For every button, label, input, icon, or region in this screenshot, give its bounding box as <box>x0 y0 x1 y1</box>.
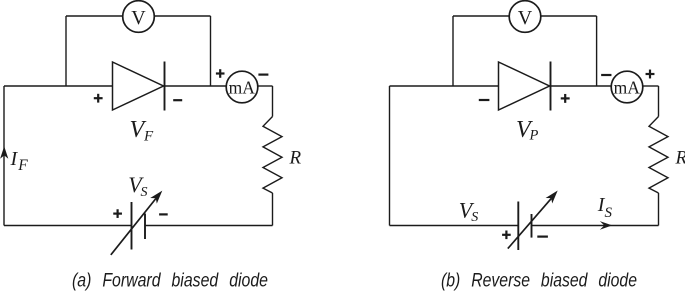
wire left vertical (b) <box>389 86 391 226</box>
svg-text:F: F <box>17 157 28 174</box>
svg-text:S: S <box>605 205 613 221</box>
svg-text:mA: mA <box>614 77 641 97</box>
battery V_S (a) short plate <box>144 214 146 240</box>
voltmeter V (a) <box>123 1 155 33</box>
wire ammeter to corner (b) <box>643 85 659 87</box>
label + battery (a) <box>113 209 122 218</box>
label V_F <box>130 117 155 145</box>
wire top horizontal (a) <box>4 85 113 87</box>
label - cathode (a) <box>173 99 182 101</box>
wire voltmeter left (a) <box>66 15 123 17</box>
ammeter mA (b) <box>611 71 643 103</box>
svg-text:mA: mA <box>229 77 256 97</box>
voltmeter V (b) <box>509 1 541 33</box>
wire diode to ammeter (a) <box>164 85 227 87</box>
wire ammeter to corner (a) <box>258 85 273 87</box>
svg-text:R: R <box>675 148 685 169</box>
label + anode (a) <box>94 94 103 103</box>
wire right vertical lower (b) <box>658 193 660 226</box>
ammeter mA (a) <box>226 71 258 103</box>
wire bottom right (b) <box>532 225 659 227</box>
battery V_S (a) variable arrow <box>111 191 163 255</box>
wire bottom right (a) <box>145 225 273 227</box>
svg-text:S: S <box>471 210 478 225</box>
wire voltmeter right (a) <box>154 15 210 17</box>
wire right vertical lower (a) <box>272 193 274 226</box>
label - anode (b) <box>479 99 490 101</box>
svg-text:S: S <box>141 185 148 200</box>
battery V_S (b) variable arrow <box>508 191 558 249</box>
diode D (b) cathode bar <box>550 62 552 111</box>
wire junction to voltmeter (a) <box>65 16 67 86</box>
wire top horizontal (b) <box>390 85 499 87</box>
wire bottom left (b) <box>390 225 519 227</box>
resistor R (b) <box>649 117 668 194</box>
diode D (b) triangle <box>499 62 550 110</box>
svg-text:V: V <box>518 7 533 29</box>
diode D (a) triangle <box>113 62 164 110</box>
label + battery (b) <box>502 231 511 240</box>
wire left vertical (a) <box>3 86 5 226</box>
wire right vertical upper (b) <box>658 86 660 117</box>
wire voltmeter down (b) <box>596 16 598 86</box>
battery V_S (b) short plate <box>531 214 533 238</box>
wire diode to ammeter (b) <box>550 85 612 87</box>
label - battery (a) <box>159 213 168 215</box>
label - battery (b) <box>537 236 548 238</box>
svg-text:P: P <box>529 127 539 143</box>
label V_S (b) <box>459 198 479 225</box>
label I_S <box>597 194 613 221</box>
svg-text:(b) Reverse biased diode: (b) Reverse biased diode <box>441 271 637 292</box>
label I_F <box>10 148 29 174</box>
wire voltmeter left (b) <box>453 15 509 17</box>
label V_S (a) <box>128 172 147 200</box>
svg-text:F: F <box>143 129 154 145</box>
svg-text:R: R <box>289 148 302 169</box>
label - ammeter left (b) <box>601 74 611 76</box>
svg-text:I: I <box>10 148 19 170</box>
wire bottom left (a) <box>4 225 132 227</box>
label + cathode (b) <box>561 94 570 103</box>
label - ammeter right (a) <box>258 73 268 75</box>
battery V_S (b) long plate <box>517 202 519 251</box>
wire voltmeter right (b) <box>541 15 597 17</box>
label V_P <box>516 117 539 143</box>
battery V_S (a) long plate <box>131 202 133 250</box>
arrow I_S direction <box>600 221 612 230</box>
wire junction to voltmeter (b) <box>452 16 454 86</box>
resistor R (a) <box>263 117 282 194</box>
diode D (a) cathode bar <box>164 62 166 111</box>
arrow I_F direction <box>0 146 8 158</box>
wire right vertical upper (a) <box>272 86 274 117</box>
svg-text:V: V <box>131 7 146 29</box>
label + ammeter left (a) <box>216 69 225 78</box>
label + ammeter right (b) <box>646 70 655 79</box>
svg-text:(a) Forward biased diode: (a) Forward biased diode <box>72 271 268 292</box>
wire voltmeter down (a) <box>210 16 212 86</box>
